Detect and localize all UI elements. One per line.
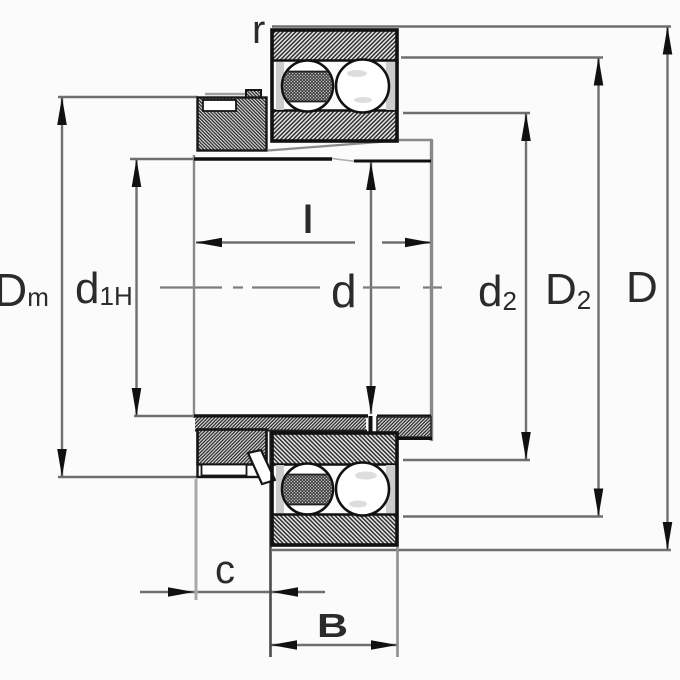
sleeve step top right [398,139,432,141]
extension line d2 bottom [403,459,530,461]
bearing outline bottom [272,433,397,545]
raceway shoulder shading top [276,62,284,110]
outer ring bottom [272,515,397,545]
ball row 1 bottom (sectioned) [282,464,333,515]
arrow D2 down [594,489,604,517]
nut outline bottom [198,430,267,478]
arrow c left-outside (points right) [168,587,194,597]
arrow c right-outside (points left) [272,587,298,597]
extension line d1H bottom [134,415,196,417]
ball row 2 top (unsectioned) [336,60,389,113]
ball row 2 bottom (unsectioned) [336,463,389,516]
arrow d1H down [132,388,142,416]
dimension line Dm vertical [61,97,63,477]
dimension line B horizontal [271,644,397,646]
dimension line D2 vertical [597,58,599,517]
inner raceway line top [273,109,396,111]
extension line D bottom [272,549,671,551]
shaft top line left [194,157,332,160]
svg-text:d: d [331,265,357,317]
dimension line d2 vertical [525,113,527,460]
shaft top line right [354,160,431,163]
inner ring bottom [272,433,397,464]
inner ring top [272,111,397,141]
extension line Dm bottom [58,476,198,478]
sleeve slit bottom [369,416,373,444]
outer raceway line bottom [273,513,396,515]
arrow d up [366,162,376,190]
shaft right edge [430,139,433,441]
cage lines top ball [283,72,332,102]
ball row 1 top (sectioned) [282,61,333,112]
extension line D top [272,25,671,27]
dimension line d1H vertical [135,159,137,416]
sleeve flange strip bottom [195,418,367,431]
sleeve flange block bottom right [376,417,432,439]
arrow B right [371,640,397,650]
dimension line d vertical [370,162,372,414]
ball shading marks top [347,70,372,103]
svg-text:c: c [215,548,235,592]
arrow D down [663,522,673,550]
outer raceway line top [273,59,396,61]
washer tab top [246,90,261,112]
extension line D2 bottom [403,515,603,517]
arrow Dm down [57,449,67,477]
sleeve slit top [332,159,356,162]
arrow D2 up [594,58,604,86]
sleeve left edge [193,155,195,418]
washer cap line top [205,93,258,96]
shaft bottom line right [377,415,431,418]
outer ring top [272,30,397,60]
centerline (dash-dot) [160,286,442,288]
dimension line c horizontal [140,591,325,593]
washer tab bottom (bent, diagonal) [248,450,275,484]
svg-text:B: B [317,607,348,644]
raceway shoulder shading bottom [276,465,284,513]
nut body top [198,98,267,151]
svg-text:r: r [252,8,265,52]
extension line Dm top [58,96,198,98]
inner raceway line bottom [273,463,396,465]
arrow l right [405,238,431,248]
extension line d2 top [403,112,530,114]
arrow d2 down [521,432,531,460]
nut body bottom [198,430,267,465]
arrow d2 up [521,113,531,141]
label l [306,205,311,234]
svg-text:D: D [626,263,658,312]
extension line D2 top [401,56,603,58]
shaft bottom line left [194,414,368,417]
extension line c left (below nut) [195,479,198,600]
ball shading marks bottom [349,472,377,508]
extension line d1H top [130,158,194,160]
arrow B left [271,640,297,650]
sleeve taper line top [268,141,398,151]
extension line B left / c right (dark) [269,420,272,657]
washer slot bottom (white) [202,465,247,476]
dimension line D vertical [666,27,668,551]
washer slot top (white) [203,100,236,111]
arrow l left [196,238,222,248]
bearing outline top [272,30,397,141]
arrow d1H up [132,159,142,187]
dimension line l horizontal [196,241,355,243]
extension line B right [396,547,399,657]
arrow d down [366,386,376,414]
arrow Dm up [57,97,67,125]
cage lines bottom ball [283,475,332,505]
arrow D up [663,27,673,55]
